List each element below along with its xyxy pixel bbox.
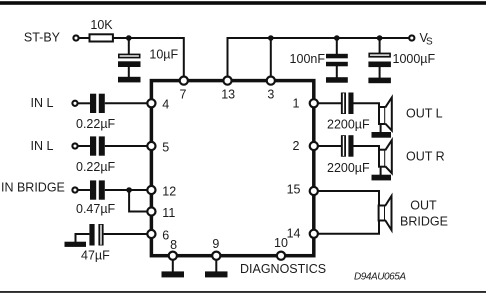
svg-text:4: 4 xyxy=(162,98,169,112)
svg-text:14: 14 xyxy=(287,226,301,240)
speaker OUT BRIDGE xyxy=(379,196,392,230)
capacitor 0.22uF (pin 5) xyxy=(90,136,105,155)
svg-text:13: 13 xyxy=(221,88,235,102)
wire terminal to cap xyxy=(78,102,90,104)
ground 1000uF xyxy=(368,78,391,84)
ground 100nF xyxy=(326,77,348,83)
wire pin 9 to ground xyxy=(215,256,217,272)
wire pin 1 to cap xyxy=(314,102,341,104)
wire rail to 100nF xyxy=(336,38,338,54)
svg-text:IN L: IN L xyxy=(31,139,54,153)
wire speaker to ground xyxy=(380,167,382,176)
pin 1 xyxy=(310,99,318,107)
junction dot above pin 3 xyxy=(268,35,274,41)
svg-text:7: 7 xyxy=(180,88,187,102)
wire cap to pin 5 xyxy=(105,145,152,147)
pin 9 xyxy=(212,252,220,260)
svg-text:2200µF: 2200µF xyxy=(327,161,370,175)
capacitor 1000uF (polarized) xyxy=(368,53,391,68)
wire pin 15 to speaker bridge top xyxy=(314,191,379,206)
wire junction to 10uF xyxy=(128,38,130,54)
capacitor 2200uF (OUT L, polarized) xyxy=(341,93,354,115)
ground speaker OUT L xyxy=(372,132,392,138)
terminal IN L (pin 4) xyxy=(72,101,77,106)
svg-text:OUT L: OUT L xyxy=(406,107,443,121)
svg-text:10: 10 xyxy=(274,236,288,250)
pin 8 xyxy=(169,252,177,260)
pin 7 xyxy=(180,77,188,85)
pin 5 xyxy=(147,142,155,150)
wire pin 2 to cap xyxy=(314,145,341,147)
svg-text:6: 6 xyxy=(162,228,169,242)
terminal VS xyxy=(409,35,414,40)
label VS xyxy=(420,31,434,47)
svg-text:IN L: IN L xyxy=(31,96,54,110)
wire 100nF to ground xyxy=(336,66,338,78)
wire rail to pin 3 xyxy=(270,38,272,78)
wire pin 8 to ground xyxy=(172,256,174,272)
pin 6 xyxy=(147,230,155,238)
svg-text:10K: 10K xyxy=(90,18,113,32)
ground speaker OUT R xyxy=(372,175,392,181)
wire terminal to resistor xyxy=(79,37,89,39)
wire 1000uF to ground xyxy=(379,67,381,78)
wire 10uF to ground xyxy=(128,67,130,77)
capacitor 0.47uF xyxy=(90,180,105,199)
capacitor 100nF xyxy=(326,54,348,67)
capacitor 0.22uF (pin 4) xyxy=(90,94,105,113)
svg-text:IN BRIDGE: IN BRIDGE xyxy=(1,181,65,195)
wire cap to speaker OUT L xyxy=(354,103,380,107)
svg-text:D94AU065A: D94AU065A xyxy=(354,272,406,283)
pin 3 xyxy=(267,77,275,85)
svg-text:47µF: 47µF xyxy=(81,249,110,263)
wire rail to 1000uF xyxy=(379,38,381,53)
junction dot 10uF tap xyxy=(126,35,132,41)
pin 10 xyxy=(277,252,285,260)
svg-text:ST-BY: ST-BY xyxy=(24,31,61,45)
svg-text:0.47µF: 0.47µF xyxy=(76,202,116,216)
svg-text:100nF: 100nF xyxy=(290,52,326,66)
terminal IN BRIDGE xyxy=(72,187,77,192)
capacitor 2200uF (OUT R, polarized) xyxy=(341,135,354,157)
pin 2 xyxy=(310,142,318,150)
svg-text:0.22µF: 0.22µF xyxy=(76,160,116,174)
wire speaker to ground xyxy=(380,124,382,133)
IC U1 TDA7375 body xyxy=(151,81,313,256)
wire terminal to cap xyxy=(78,189,90,191)
svg-text:1000µF: 1000µF xyxy=(393,52,436,66)
junction dot 100nF tap xyxy=(334,35,340,41)
svg-text:DIAGNOSTICS: DIAGNOSTICS xyxy=(240,262,326,276)
svg-text:10µF: 10µF xyxy=(149,48,178,62)
wire terminal to cap xyxy=(78,145,90,147)
svg-text:2200µF: 2200µF xyxy=(327,118,370,132)
svg-text:9: 9 xyxy=(212,237,219,251)
svg-text:12: 12 xyxy=(162,184,176,198)
resistor 10K xyxy=(90,34,113,41)
speaker OUT R xyxy=(379,140,392,173)
terminal IN L (pin 5) xyxy=(72,143,77,148)
svg-text:5: 5 xyxy=(162,140,169,154)
pin 4 xyxy=(147,99,155,107)
ground 10uF xyxy=(118,77,141,83)
svg-text:OUT R: OUT R xyxy=(406,149,445,163)
svg-text:2: 2 xyxy=(293,139,300,153)
svg-text:0.22µF: 0.22µF xyxy=(76,117,116,131)
svg-text:11: 11 xyxy=(162,206,175,220)
terminal ST-BY xyxy=(73,35,78,40)
wire ground to 47uF xyxy=(76,234,90,243)
pin 15 xyxy=(310,187,318,195)
speaker OUT L xyxy=(379,98,392,131)
wire pin 13 to top rail xyxy=(228,38,409,78)
wire cap to pin 4 xyxy=(105,102,152,104)
pin 14 xyxy=(310,230,318,238)
svg-text:BRIDGE: BRIDGE xyxy=(400,215,448,229)
svg-text:OUT: OUT xyxy=(410,199,437,213)
svg-text:8: 8 xyxy=(170,238,177,252)
junction dot 1000uF tap xyxy=(377,35,383,41)
pin 13 xyxy=(223,77,231,85)
capacitor 47uF (polarized) xyxy=(89,224,103,246)
capacitor 10uF (polarized) xyxy=(118,54,141,67)
svg-text:3: 3 xyxy=(267,88,274,102)
label OUT BRIDGE xyxy=(400,199,448,229)
svg-text:S: S xyxy=(426,36,433,47)
ground 47uF xyxy=(65,242,87,247)
wire pin 14 to speaker bridge bottom xyxy=(314,221,379,234)
wire cap to speaker OUT R xyxy=(354,146,380,150)
svg-text:1: 1 xyxy=(293,97,300,111)
frame bottom border xyxy=(0,291,486,293)
wire resistor to pin 7 xyxy=(113,38,184,78)
svg-text:15: 15 xyxy=(287,183,301,197)
ground pin 8 xyxy=(162,271,185,277)
junction dot bridge input xyxy=(126,187,132,193)
ground pin 9 xyxy=(205,271,228,277)
wire cap to pin 12 xyxy=(105,189,152,191)
pin 11 xyxy=(147,207,155,215)
wire 47uF to pin 6 xyxy=(104,233,152,235)
pin 12 xyxy=(147,186,155,194)
wire junction to pin 11 xyxy=(129,190,151,212)
frame top border xyxy=(0,1,486,5)
